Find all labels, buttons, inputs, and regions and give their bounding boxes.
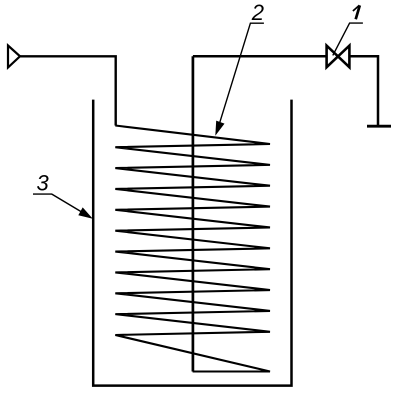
- termination bar: [367, 125, 391, 128]
- valve V1 (bowtie): [327, 46, 350, 68]
- wire: coil outlet riser pipe (middle vertical): [192, 56, 195, 371]
- coil 2 (zigzag spring inside tank): [115, 126, 270, 372]
- wire: inlet pipe to coil down-pipe: [20, 56, 116, 125]
- wire: riser to valve: [193, 55, 326, 58]
- wire: valve to drop leg: [351, 56, 379, 125]
- svg-text:3: 3: [37, 170, 50, 195]
- inlet nozzle triangle (left): [8, 46, 20, 68]
- tank 3 (open-top vessel): [93, 100, 291, 386]
- label 1 leader: [333, 23, 363, 55]
- label 1 (drawn, italic technical "1" without foot): [356, 5, 360, 19]
- svg-text:2: 2: [251, 0, 264, 25]
- label 2 leader with arrow: [218, 23, 264, 128]
- label 3 leader with arrow: [33, 194, 87, 215]
